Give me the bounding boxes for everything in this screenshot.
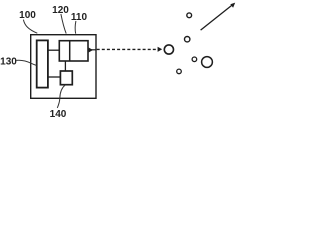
droplet circle tiny right [192, 57, 197, 62]
wire 130 to 140 [48, 76, 61, 78]
outer box 100 [31, 35, 96, 99]
leader 110 [74, 21, 77, 34]
arrowhead on output wire [89, 48, 93, 53]
droplet circle small top [187, 13, 192, 18]
svg-text:130: 130 [0, 57, 17, 68]
svg-text:100: 100 [19, 10, 36, 21]
block pair 120/110 outer rectangle [59, 41, 88, 61]
direction arrow head [230, 3, 235, 8]
direction arrow line [201, 5, 233, 30]
wire 130 to 120 [48, 49, 59, 51]
divider between 120 and 110 [69, 41, 71, 61]
droplet circle tiny bottom [177, 69, 182, 74]
leader 120 [61, 14, 66, 34]
droplet circle large near arrow [164, 45, 173, 54]
leader 130 [16, 60, 36, 65]
droplet circle large right [202, 57, 213, 68]
svg-text:140: 140 [50, 109, 67, 120]
leader 100 [23, 20, 37, 34]
arrowhead at end of dashed line [158, 47, 163, 52]
svg-text:110: 110 [71, 12, 88, 23]
leader 140 [57, 85, 65, 108]
wire 110 to box edge with arrowhead [88, 49, 96, 51]
wire 110 bottom to 140 top [64, 61, 66, 71]
dashed output line [97, 48, 159, 50]
block 140 small square [60, 71, 72, 85]
block 130 tall rectangle [37, 40, 48, 87]
droplet circle small mid [185, 37, 190, 42]
